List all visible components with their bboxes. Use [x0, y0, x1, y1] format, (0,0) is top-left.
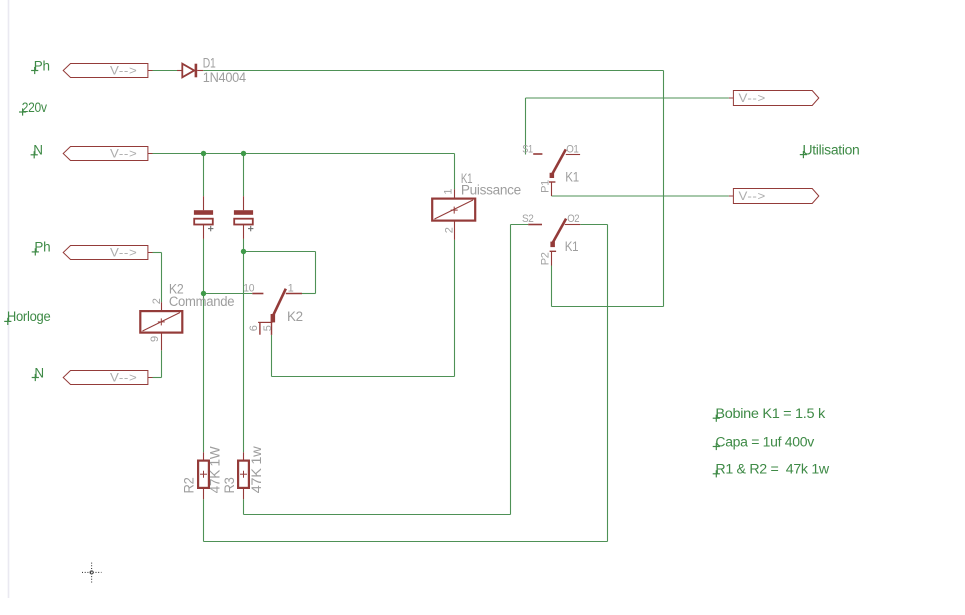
svg-text:1N4004: 1N4004 [203, 70, 247, 85]
capacitor C2 [234, 196, 253, 239]
wire R3 run to S2 column [244, 514, 511, 516]
svg-text:V-->: V--> [110, 248, 138, 260]
net label Ph [31, 67, 38, 74]
svg-text:P1: P1 [539, 180, 551, 193]
wire to K2 pin5 [271, 335, 273, 377]
wire S1 to connector X5 [526, 97, 729, 99]
svg-text:2: 2 [444, 227, 456, 233]
annotation Capa [713, 443, 720, 450]
svg-text:V-->: V--> [110, 66, 138, 78]
polarity plus of C1 [208, 226, 213, 231]
wire bottom of right column [552, 306, 664, 308]
svg-text:2: 2 [151, 298, 163, 304]
wire N row [153, 153, 455, 155]
wire D1 to right column [203, 70, 663, 72]
svg-text:S2: S2 [522, 213, 534, 225]
wire S1 drop [525, 98, 527, 155]
svg-text:R3: R3 [222, 478, 237, 494]
origin marker [82, 563, 102, 584]
wire Ph2 to K2 coil [153, 252, 162, 254]
wire S2 column [510, 225, 512, 515]
relay contact K1-2 S2/O2/P2 [528, 219, 580, 266]
svg-text:Ph: Ph [34, 240, 50, 255]
svg-text:1: 1 [443, 189, 455, 195]
wire O2 column [607, 225, 609, 542]
wire C1 top [203, 154, 205, 197]
wire R3 bottom [243, 499, 245, 514]
capacitor C1 [194, 196, 213, 239]
wire K2 pin1 loop top [244, 251, 316, 253]
svg-text:1: 1 [288, 283, 294, 295]
diode D1 [177, 64, 203, 78]
svg-text:47K 1w: 47K 1w [249, 446, 264, 493]
wire K1 pin2 run [272, 376, 455, 378]
wire to connector X4 [153, 377, 162, 379]
svg-text:N: N [34, 365, 43, 380]
svg-text:O1: O1 [566, 144, 579, 156]
svg-text:5: 5 [262, 325, 274, 331]
junction pin10 [201, 291, 206, 296]
wire K2 coil pin9 down [161, 350, 163, 377]
svg-text:K1: K1 [565, 170, 579, 185]
svg-text:P2: P2 [539, 252, 551, 265]
wire to S2 [511, 224, 529, 226]
annotation R1 R2 [713, 470, 720, 477]
svg-text:9: 9 [149, 336, 161, 342]
wire K1 pin2 down [454, 240, 456, 377]
svg-text:K1: K1 [565, 239, 579, 254]
svg-text:R1 & R2 = 47k 1w: R1 & R2 = 47k 1w [715, 462, 829, 477]
wire P1 to connector X6 [552, 195, 729, 197]
wire bottom run to O2 column [204, 541, 608, 543]
wire P2 down [551, 266, 553, 307]
polarity plus of C2 [248, 226, 253, 231]
wire C2 bottom to R3 [243, 239, 245, 452]
relay coil K1 [432, 189, 475, 240]
svg-text:V-->: V--> [110, 373, 138, 385]
wire right column vertical [663, 71, 665, 307]
sheet left edge [8, 0, 10, 598]
wire K2 pin1 loop bottom [302, 293, 316, 295]
junction N/C1 [201, 151, 206, 156]
wire N to K1 coil pin 1 [454, 154, 456, 190]
svg-text:Ph: Ph [34, 58, 50, 73]
svg-text:V-->: V--> [739, 191, 767, 203]
annotation Bobine K1 [713, 415, 720, 422]
junction N/C2 [241, 151, 246, 156]
svg-text:Horloge: Horloge [7, 309, 51, 324]
svg-text:D1: D1 [203, 56, 216, 71]
svg-text:220v: 220v [22, 100, 47, 115]
svg-text:K2: K2 [287, 309, 303, 324]
svg-text:Bobine K1 = 1.5 k: Bobine K1 = 1.5 k [715, 406, 825, 421]
svg-text:S1: S1 [522, 144, 533, 156]
svg-text:R2: R2 [181, 478, 196, 494]
resistor R3 [238, 452, 249, 499]
net label N horloge [32, 374, 39, 381]
wire to K2 pin10 [204, 293, 253, 295]
svg-text:V-->: V--> [739, 93, 767, 105]
svg-text:Puissance: Puissance [461, 182, 521, 197]
wire C2 top [243, 154, 245, 197]
wire K2 coil pin2 drop [161, 253, 163, 303]
svg-text:Commande: Commande [169, 294, 234, 309]
wire R2 bottom [203, 499, 205, 541]
resistor R2 [198, 452, 209, 499]
relay contact K1-1 S1/O1/P1 [533, 149, 580, 196]
net label Horloge [4, 318, 11, 325]
svg-text:O2: O2 [567, 213, 579, 225]
wire C1 bottom to R2 [203, 239, 205, 452]
relay contact K2 pins 10/1/5/6 [252, 289, 302, 335]
net label 220v [19, 108, 26, 115]
svg-text:6: 6 [248, 325, 260, 331]
net label N [31, 151, 38, 158]
svg-text:Capa = 1uf 400v: Capa = 1uf 400v [715, 434, 814, 449]
relay coil K2 [140, 302, 182, 350]
junction K2 loop [241, 249, 246, 254]
net label Ph horloge [32, 248, 39, 255]
wire Ph to D1 [153, 70, 178, 72]
wire K2 pin1 loop right [315, 252, 317, 294]
wire O2 stub link [580, 224, 607, 226]
net label Utilisation [800, 151, 807, 158]
svg-text:Utilisation: Utilisation [803, 142, 860, 157]
svg-text:V-->: V--> [110, 149, 138, 161]
svg-text:10: 10 [243, 283, 254, 295]
svg-text:47K 1W: 47K 1W [207, 446, 222, 493]
svg-text:N: N [33, 143, 42, 158]
